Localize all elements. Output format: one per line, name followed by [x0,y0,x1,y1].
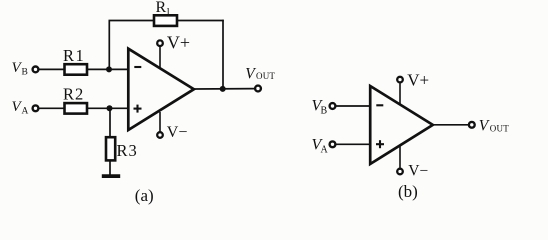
terminal V+ (b) [397,77,403,83]
node junction minus input [106,66,112,72]
svg-text:R3: R3 [117,141,138,160]
wire R3 to ground [109,160,111,175]
wire R1 to op-amp minus input [87,68,129,70]
terminal V- [157,132,163,138]
resistor Rl (feedback) [154,15,177,26]
wire V- stem [159,112,161,132]
svg-text:B: B [321,106,328,117]
terminal VA [33,105,39,111]
svg-text:V+: V+ [167,33,190,53]
node junction plus input [107,105,113,111]
ground [102,174,120,178]
resistor R2 [65,103,88,114]
wire VB to R1 [39,68,64,70]
svg-text:V: V [479,117,490,134]
svg-text:V−: V− [408,163,428,180]
wire VA to op-amp (b) [336,143,371,145]
op-amp U2 triangle [370,86,433,164]
wire feedback top right [177,20,224,22]
svg-text:R: R [156,0,167,16]
wire VB to op-amp (b) [336,105,371,107]
wire V+ stem [159,46,161,68]
op-amp U1 triangle [128,49,194,130]
terminal V- (b) [397,169,403,175]
wire plus node down to R3 [109,108,111,137]
svg-text:(b): (b) [398,182,418,201]
wire R2 to op-amp plus input [87,107,129,109]
terminal V+ [157,40,163,46]
wire V- stem (b) [399,146,401,169]
terminal VA (b) [330,141,336,147]
node output junction [220,86,226,92]
wire feedback top left [109,20,155,22]
svg-text:l: l [167,7,170,18]
op-amp U2 plus sign [376,143,384,145]
svg-text:R1: R1 [63,46,85,65]
terminal VB (b) [330,103,336,109]
wire VA to R2 [39,107,64,109]
terminal VB [33,67,39,73]
terminal Vout [255,86,261,92]
svg-text:A: A [321,145,329,156]
svg-text:R2: R2 [63,84,84,103]
svg-text:V+: V+ [407,70,429,89]
svg-text:(a): (a) [135,186,154,205]
wire output [195,88,255,90]
svg-text:OUT: OUT [256,71,275,81]
resistor R1 [65,64,88,75]
svg-text:B: B [22,68,28,78]
op-amp U2 minus sign [376,104,383,106]
wire feedback left vertical [108,21,110,70]
wire output (b) [433,124,468,126]
op-amp U1 minus sign [134,66,141,68]
svg-text:V: V [245,65,256,82]
resistor R3 [106,137,115,160]
wire V+ stem (b) [399,83,401,105]
terminal Vout (b) [469,122,475,128]
op-amp U1 plus sign [134,108,142,110]
svg-text:A: A [22,107,29,117]
wire feedback right vertical [222,20,224,89]
svg-text:OUT: OUT [490,123,509,133]
svg-text:V−: V− [167,124,188,141]
